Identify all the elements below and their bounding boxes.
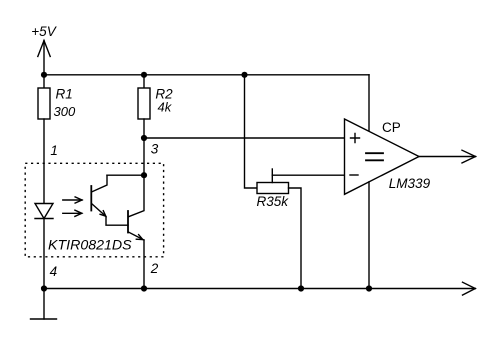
junction dot: ground rail / LED column bbox=[41, 285, 47, 291]
light emission arrow upper bbox=[63, 197, 82, 203]
wire: comparator ground pin bbox=[368, 182, 370, 289]
wire: bottom ground rail with arrow bbox=[44, 282, 475, 295]
wire: R35k left branch from rail bbox=[245, 75, 258, 188]
svg-text:CP: CP bbox=[382, 120, 401, 135]
potentiometer R35k bbox=[257, 169, 289, 194]
svg-text:R35k: R35k bbox=[257, 194, 290, 209]
junction dot: ground rail / R35k bbox=[298, 285, 304, 291]
svg-text:4: 4 bbox=[50, 264, 58, 279]
wire: comparator V+ drop bbox=[368, 75, 370, 132]
junction dot: rail / R2 bbox=[141, 72, 147, 78]
svg-text:LM339: LM339 bbox=[389, 176, 431, 191]
wire: comparator +input bbox=[144, 137, 345, 139]
svg-text:+5V: +5V bbox=[31, 24, 57, 39]
wire: pin 3 into optocoupler bbox=[143, 138, 145, 175]
op-amp comparator U2 LM339 bbox=[345, 119, 420, 194]
resistor R1 bbox=[38, 75, 50, 204]
optocoupler U1 KTIR0821DS dashed box bbox=[25, 163, 163, 256]
svg-text:1: 1 bbox=[50, 143, 58, 158]
resistor R2 bbox=[138, 75, 150, 138]
junction dot: ground rail / comparator bbox=[366, 285, 372, 291]
phototransistor Q1 (first of darlington) bbox=[91, 175, 128, 225]
junction dot: collector node pin3 bbox=[141, 172, 147, 178]
svg-text:KTIR0821DS: KTIR0821DS bbox=[48, 237, 132, 253]
svg-text:R1: R1 bbox=[56, 86, 73, 101]
junction dot: rail / R1 bbox=[41, 72, 47, 78]
svg-text:3: 3 bbox=[151, 142, 159, 157]
ground symbol bbox=[31, 289, 57, 320]
+5V power arrow bbox=[38, 41, 50, 75]
svg-text:4k: 4k bbox=[158, 100, 173, 115]
phototransistor Q2 (second of darlington) bbox=[128, 175, 144, 240]
wire: comparator output with arrow bbox=[419, 150, 476, 163]
light emission arrow lower bbox=[63, 210, 82, 216]
wire: pin 2 emitter to ground rail bbox=[143, 240, 145, 289]
svg-text:2: 2 bbox=[150, 261, 159, 276]
junction dot: ground rail / pin 2 bbox=[141, 285, 147, 291]
junction dot: R2 / comparator +input bbox=[141, 135, 147, 141]
wire: R35k right branch to ground rail bbox=[289, 188, 302, 289]
svg-text:300: 300 bbox=[54, 104, 76, 119]
wire: top +5V rail bbox=[44, 74, 369, 76]
wire: wiper to comparator -input bbox=[272, 174, 344, 176]
wire: Q1 collector to node bbox=[107, 174, 144, 176]
LED D1 (emitter diode) bbox=[35, 204, 53, 289]
junction dot: rail / R35k branch bbox=[241, 72, 247, 78]
